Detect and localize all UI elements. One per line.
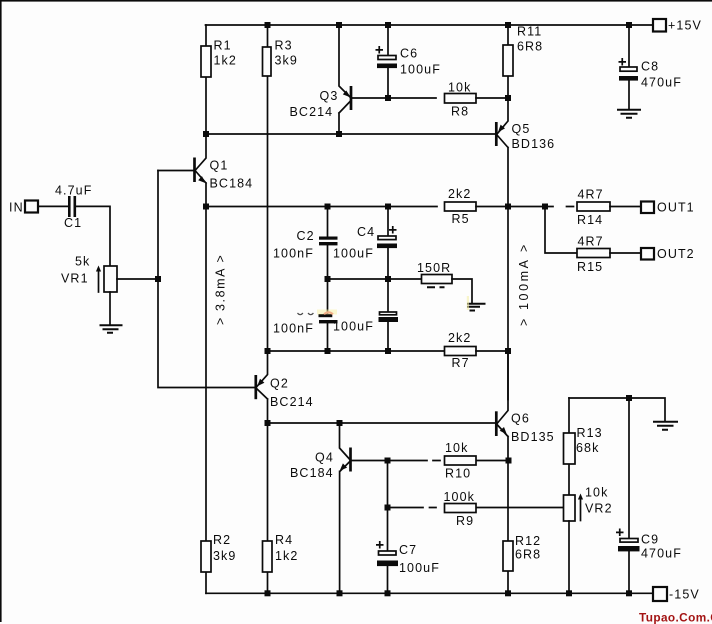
resistor R12 — [507, 461, 509, 594]
terminal OUT1 — [641, 202, 654, 214]
watermark remnant yellow streak — [467, 296, 469, 310]
svg-text:Q5: Q5 — [512, 122, 531, 136]
resistor R5 — [445, 202, 477, 211]
wire Q1 base — [158, 170, 193, 172]
svg-text:R7: R7 — [452, 356, 470, 370]
node junction Q2 emitter / R3 — [265, 348, 271, 354]
svg-text:R3: R3 — [275, 39, 293, 53]
wire Q5 base line (node R1/Q1 collector to Q5) — [206, 133, 496, 135]
svg-text:Q2: Q2 — [270, 377, 289, 391]
capacitor C7 — [387, 508, 389, 594]
svg-text:10k: 10k — [448, 81, 471, 95]
node junction C4 top — [385, 204, 391, 210]
node junction R9 / C7 column — [385, 505, 391, 511]
svg-text:C7: C7 — [399, 543, 417, 557]
capacitor C3 — [327, 279, 329, 351]
wire mid cap row to 150R — [328, 278, 422, 280]
node junction top rail at Q3 emitter — [336, 22, 342, 28]
svg-text:6R8: 6R8 — [517, 40, 543, 54]
svg-text:R8: R8 — [451, 105, 469, 119]
svg-text:100uF: 100uF — [400, 63, 441, 77]
node junction top rail at R3 — [265, 22, 271, 28]
transistor Q3 — [339, 25, 351, 134]
svg-text:Tupao.Com.Cn: Tupao.Com.Cn — [639, 611, 712, 624]
node junction Q1 emitter — [203, 204, 209, 210]
wire IN to C1 — [38, 205, 68, 207]
svg-text:10k: 10k — [585, 486, 608, 500]
node junction Q4 collector — [337, 420, 343, 426]
border frame top/left — [0, 0, 712, 2]
svg-text:150R: 150R — [417, 261, 451, 275]
svg-text:3k9: 3k9 — [213, 549, 236, 563]
node junction R12 bottom — [505, 590, 511, 596]
svg-text:BC214: BC214 — [270, 395, 314, 409]
svg-text:10k: 10k — [445, 441, 468, 455]
svg-text:R1: R1 — [214, 39, 232, 53]
node junction C9 top — [626, 395, 632, 401]
wire Q3 base to R8 — [353, 97, 437, 99]
node junction Q4 base column — [385, 458, 391, 464]
capacitor C5 — [387, 279, 389, 351]
resistor R1 — [205, 25, 207, 134]
node junction Q3 collector — [336, 131, 342, 137]
svg-text:470uF: 470uF — [641, 76, 682, 90]
node junction VR1 wiper / base column — [155, 276, 161, 282]
svg-text:C9: C9 — [641, 533, 659, 547]
svg-text:BD136: BD136 — [512, 137, 556, 151]
wire R5 to output node — [476, 206, 574, 208]
transistor Q4 — [340, 423, 351, 593]
wire R15 to OUT2 — [610, 252, 641, 254]
resistor R9 — [445, 504, 477, 513]
resistor R2 — [205, 207, 207, 594]
svg-text:BC214: BC214 — [290, 105, 334, 119]
svg-text:100uF: 100uF — [333, 247, 374, 261]
svg-text:4R7: 4R7 — [578, 235, 604, 249]
wire C1 to VR1 — [76, 206, 110, 266]
svg-text:2k2: 2k2 — [448, 331, 471, 345]
terminal OUT2 — [641, 248, 654, 260]
wire R14 to OUT1 — [610, 206, 641, 208]
svg-text:C2: C2 — [297, 229, 315, 243]
svg-text:Q6: Q6 — [511, 412, 530, 426]
svg-text:3k9: 3k9 — [275, 54, 298, 68]
svg-text:> 100mA >: > 100mA > — [517, 242, 531, 326]
svg-text:4R7: 4R7 — [578, 188, 604, 202]
node junction Q2 collector / R4 — [265, 420, 271, 426]
node junction R8/rail — [505, 95, 511, 101]
wire R7 to output rail — [476, 350, 508, 352]
svg-text:Q4: Q4 — [315, 451, 334, 465]
node junction top rail at C6 — [385, 22, 391, 28]
node junction C4/C5 — [385, 276, 391, 282]
svg-text:68k: 68k — [576, 441, 599, 455]
svg-text:C6: C6 — [400, 47, 418, 61]
wire R8 to rail — [476, 97, 508, 99]
wire VR1 wiper — [117, 278, 158, 280]
svg-text:R5: R5 — [452, 212, 470, 226]
resistor R13 — [568, 398, 570, 495]
ground (right) — [653, 422, 678, 430]
svg-text:-15V: -15V — [669, 588, 700, 602]
resistor R4 — [267, 423, 269, 593]
terminal -15V — [653, 587, 667, 601]
svg-text:100uF: 100uF — [333, 320, 374, 334]
svg-text:BD135: BD135 — [511, 430, 555, 444]
potentiometer VR2 — [564, 495, 576, 521]
node junction top rail at C8 — [626, 22, 632, 28]
svg-text:C1: C1 — [64, 216, 82, 230]
svg-text:OUT2: OUT2 — [657, 247, 695, 261]
svg-text:100nF: 100nF — [273, 247, 314, 261]
node junction R10 / Q6 emitter — [506, 458, 512, 464]
svg-text:R13: R13 — [577, 426, 603, 440]
wire +15V top rail — [206, 24, 653, 26]
resistor R8 — [445, 94, 477, 104]
node junction R4 bottom — [265, 590, 271, 596]
node junction Q4 emitter bottom — [337, 590, 343, 596]
node junction top rail at R11 — [505, 22, 511, 28]
resistor R10 — [445, 456, 477, 465]
node junction C6/Q3 base — [385, 95, 391, 101]
node junction R1/Q1/Q5-base line — [203, 131, 209, 137]
resistor R15 — [577, 249, 610, 258]
svg-text:IN: IN — [9, 201, 24, 215]
svg-text:C4: C4 — [357, 225, 375, 239]
watermark remnant marks above C3 — [298, 313, 314, 315]
wire base column Q1 to Q2 — [158, 171, 255, 388]
node junction C5 bottom — [385, 348, 391, 354]
node junction C3 bottom — [325, 348, 331, 354]
svg-text:VR2: VR2 — [585, 502, 613, 516]
ground (C8) — [617, 110, 641, 118]
wire lower cap row / R7 line — [268, 350, 445, 352]
capacitor C2 — [327, 207, 329, 280]
ground (150R) — [467, 304, 486, 311]
resistor R11 — [507, 25, 509, 98]
wire mid line Q1 emitter to R5 — [206, 206, 437, 208]
svg-text:1k2: 1k2 — [275, 549, 298, 563]
resistor 150R — [422, 275, 453, 284]
wire R13 top line to ground — [569, 398, 665, 421]
capacitor C1 — [68, 196, 71, 217]
transistor Q1 — [196, 134, 207, 207]
svg-text:> 3.8mA >: > 3.8mA > — [214, 254, 228, 325]
wire -15V bottom rail — [206, 592, 653, 594]
svg-text:R15: R15 — [577, 260, 603, 274]
svg-text:BC184: BC184 — [290, 466, 334, 480]
wire Q4 base / R10 line — [352, 460, 508, 462]
node junction C7 bottom — [385, 590, 391, 596]
svg-text:100nF: 100nF — [273, 322, 314, 336]
resistor R14 — [577, 202, 610, 211]
node junction C2/C3 — [325, 276, 331, 282]
svg-text:OUT1: OUT1 — [657, 201, 695, 215]
svg-text:5k: 5k — [75, 255, 90, 269]
svg-text:R4: R4 — [275, 533, 293, 547]
svg-text:C8: C8 — [641, 60, 659, 74]
svg-text:100uF: 100uF — [399, 561, 440, 575]
capacitor C8 — [628, 25, 630, 109]
capacitor C4 — [387, 207, 389, 280]
terminal +15V — [653, 19, 666, 32]
resistor R7 — [445, 347, 477, 356]
capacitor C6 — [387, 25, 389, 98]
svg-text:R11: R11 — [517, 25, 542, 39]
wire R9 line — [388, 461, 564, 508]
node junction C9 bottom — [626, 590, 632, 596]
wire to R15 row — [545, 207, 577, 254]
node junction output rail / R5 — [505, 204, 511, 210]
svg-text:R14: R14 — [577, 213, 603, 227]
svg-text:Q3: Q3 — [320, 89, 339, 103]
svg-text:Q1: Q1 — [210, 159, 229, 173]
svg-text:6R8: 6R8 — [515, 548, 541, 562]
node junction R7/output rail — [505, 348, 511, 354]
svg-text:VR1: VR1 — [61, 272, 89, 286]
svg-text:470uF: 470uF — [641, 547, 682, 561]
svg-text:4.7uF: 4.7uF — [55, 184, 92, 198]
svg-text:+15V: +15V — [668, 19, 702, 33]
svg-text:1k2: 1k2 — [214, 54, 237, 68]
svg-text:2k2: 2k2 — [448, 187, 471, 201]
svg-text:100k: 100k — [444, 490, 476, 504]
svg-text:R9: R9 — [456, 514, 474, 528]
potentiometer VR1 — [104, 266, 117, 292]
node junction C2 top — [325, 204, 331, 210]
svg-text:R10: R10 — [445, 467, 471, 481]
ground (VR1) — [100, 325, 123, 333]
node junction output to R14/R15 — [542, 204, 548, 210]
resistor R3 — [267, 25, 269, 351]
transistor Q6 — [498, 351, 509, 461]
svg-text:R2: R2 — [213, 533, 231, 547]
svg-text:R12: R12 — [515, 534, 541, 548]
wire output rail Q5 to Q6 — [507, 207, 509, 400]
wire 150R to ground — [452, 279, 472, 303]
node junction VR2 bottom — [566, 590, 572, 596]
capacitor C9 — [628, 398, 630, 593]
transistor Q2 — [257, 351, 268, 423]
transistor Q5 — [497, 98, 508, 207]
wire Q2 collector to Q6 base — [268, 422, 496, 424]
svg-text:BC184: BC184 — [210, 177, 254, 191]
